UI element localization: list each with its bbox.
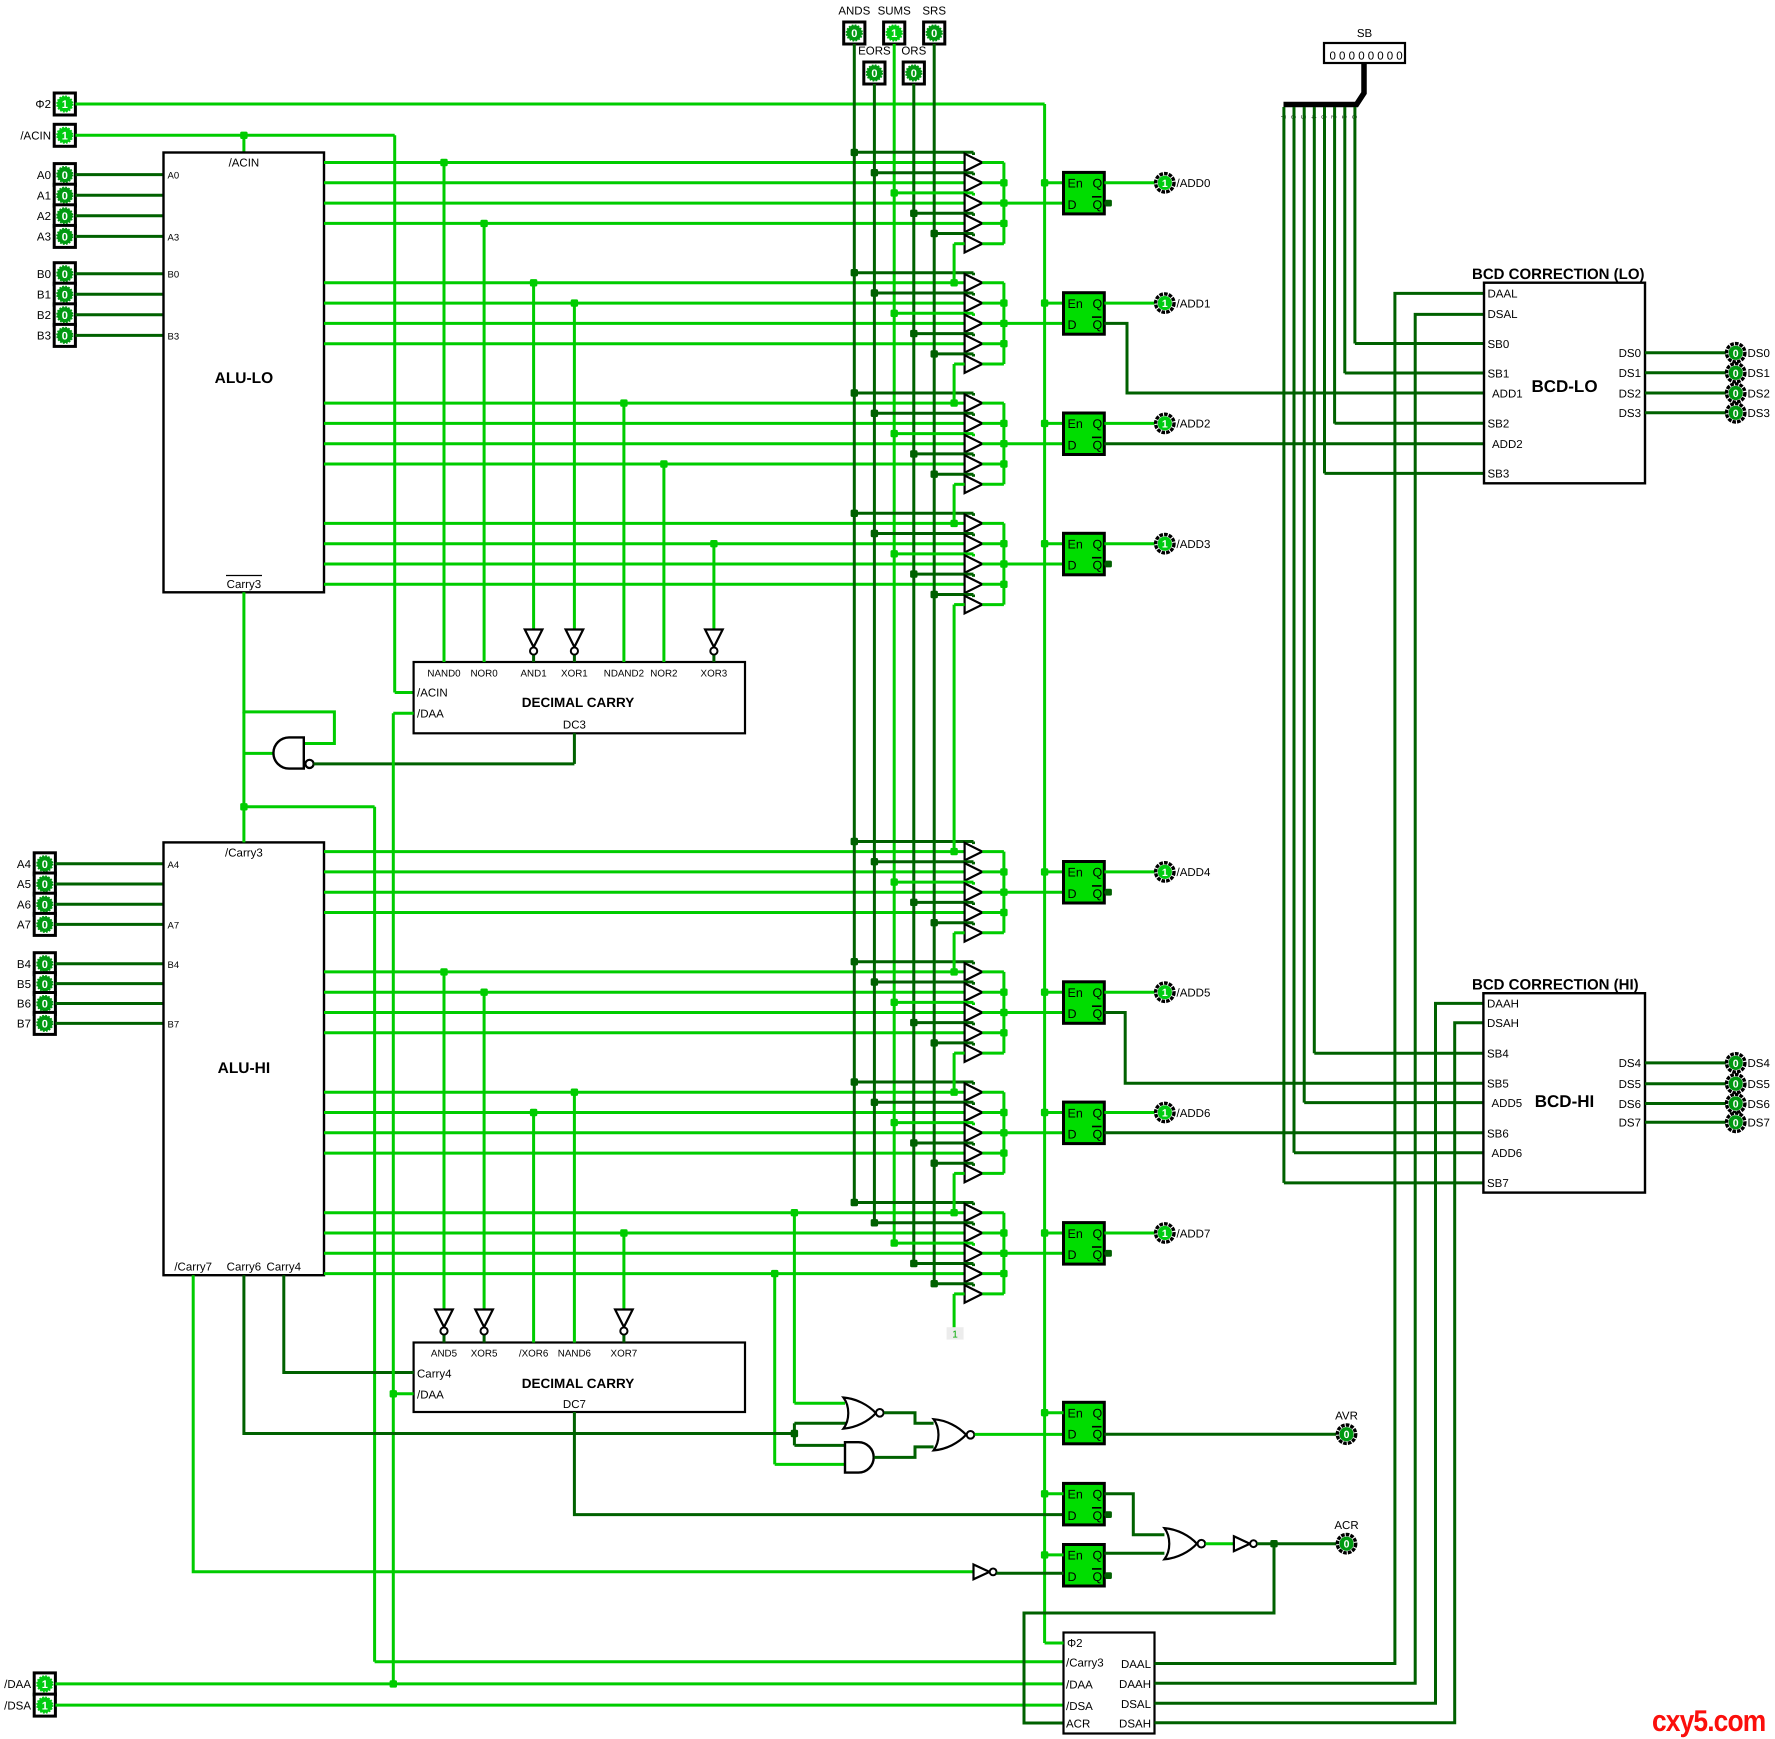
node A5 input pin [17, 873, 55, 895]
svg-text:Q: Q [1093, 1227, 1103, 1241]
wire ALU row g4r4 [324, 911, 965, 914]
wire /Carry7 net [193, 1275, 973, 1572]
wire D input bit2 [1004, 442, 1064, 445]
svg-text:En: En [1068, 538, 1083, 552]
wire NAND0 feed [440, 159, 447, 662]
svg-text:/ADD7: /ADD7 [1177, 1228, 1211, 1240]
svg-text:DS6: DS6 [1619, 1099, 1641, 1111]
wire ANDS enable tap bit1 [851, 269, 974, 276]
wire ANDS enable tap bit3 [851, 510, 974, 517]
svg-text:DC7: DC7 [563, 1399, 586, 1411]
svg-text:D: D [1068, 438, 1077, 452]
svg-text:DS2: DS2 [1619, 388, 1641, 400]
wire Q output bit2 [1104, 422, 1154, 425]
svg-text:En: En [1068, 1106, 1083, 1120]
node DS1 output pin [1727, 364, 1770, 382]
wire SUMS select vertical [893, 44, 896, 1243]
svg-text:Q: Q [1093, 1106, 1103, 1120]
wire B6 stub [55, 1002, 163, 1005]
wire SB1 bus line [1345, 107, 1484, 373]
wire /ACIN net [75, 132, 413, 693]
wire A1 stub [75, 194, 163, 197]
wire D input bit3 [1004, 563, 1064, 566]
wire D input bit4 [1004, 891, 1064, 894]
wire A6 stub [55, 903, 163, 906]
wire EORS enable tap bit3 [871, 530, 974, 537]
svg-text:0: 0 [1368, 51, 1374, 63]
svg-text:0: 0 [62, 269, 68, 281]
node DS3 output pin [1727, 404, 1770, 422]
wire U3 out [874, 1447, 933, 1458]
svg-text:B7: B7 [168, 1020, 180, 1031]
svg-text:DS4: DS4 [1748, 1058, 1771, 1070]
svg-text:0: 0 [42, 959, 48, 971]
inverter U7 (ACR) [1234, 1536, 1257, 1551]
capacitor latch /ADD3 [1064, 533, 1105, 575]
wire Carry4 to DC7 [284, 1275, 414, 1372]
wire SUMS enable tap bit2 [891, 430, 974, 437]
wire ACR-hold Qbar stub [1104, 1511, 1112, 1518]
wire U4 out to AVR latch D [975, 1433, 1064, 1436]
wire SRS link bit7 [954, 1294, 965, 1327]
wire B4 stub [55, 962, 163, 965]
inverter XOR3 [705, 630, 723, 663]
wire DC7 output [574, 1412, 1063, 1515]
wire Q output bit0 [1104, 181, 1154, 184]
transistor tri-state buffer ANDS6 [965, 1083, 983, 1101]
svg-text:ALU-LO: ALU-LO [215, 370, 274, 387]
wire AVR tap row4 [771, 1270, 846, 1465]
svg-text:0: 0 [1396, 51, 1402, 63]
wire Q output bit6 [1104, 1111, 1154, 1114]
wire U6 out [1205, 1542, 1233, 1545]
svg-text:/Carry3: /Carry3 [1066, 1658, 1104, 1670]
wire SRS enable tap bit5 [931, 1039, 974, 1046]
wire SRS link bit6 [950, 1173, 964, 1216]
svg-text:DS2: DS2 [1748, 388, 1770, 400]
svg-text:0: 0 [62, 289, 68, 301]
node A4 input pin [17, 853, 55, 875]
svg-text:0: 0 [42, 879, 48, 891]
svg-text:1: 1 [1162, 418, 1168, 430]
svg-text:A1: A1 [37, 190, 51, 202]
transistor tri-state buffer ORS7 [965, 1265, 983, 1283]
wire SUMS enable tap bit6 [891, 1119, 974, 1126]
wire SUMS enable tap bit7 [891, 1239, 974, 1246]
svg-text:Carry4: Carry4 [267, 1262, 302, 1274]
wire SB7 bus line [1284, 107, 1484, 1183]
svg-text:B3: B3 [168, 331, 180, 342]
svg-text:Q: Q [1093, 538, 1103, 552]
svg-text:DAAH: DAAH [1119, 1679, 1151, 1691]
svg-text:0: 0 [62, 331, 68, 343]
wire ALU row g6r2 [324, 1111, 965, 1114]
wire ACR-carry En [1045, 1553, 1064, 1556]
svg-text:Q: Q [1093, 438, 1103, 452]
wire ORS select vertical [912, 84, 915, 1264]
wire EORS enable tap bit2 [871, 410, 974, 417]
svg-text:Q: Q [1093, 1570, 1103, 1584]
svg-text:/ADD4: /ADD4 [1177, 867, 1211, 879]
wire B5 stub [55, 982, 163, 985]
transistor tri-state buffer SRS5 [965, 1044, 983, 1062]
transistor tri-state buffer SUMS6 [965, 1124, 983, 1142]
capacitor latch /ADD5 [1064, 982, 1105, 1024]
wire SB bus trunk [1284, 63, 1365, 105]
svg-text:SB3: SB3 [1488, 469, 1510, 481]
svg-text:SB5: SB5 [1487, 1079, 1509, 1091]
wire AVR tap SUM7 [791, 1209, 845, 1403]
wire DS5 out [1645, 1082, 1726, 1085]
wire DC3 output [314, 733, 575, 764]
svg-text:0: 0 [1733, 1058, 1739, 1070]
svg-text:Q: Q [1093, 887, 1103, 901]
svg-text:Q: Q [1093, 866, 1103, 880]
wire SRS enable tap bit4 [931, 919, 974, 926]
wire PHI2 to control box [1045, 1642, 1064, 1645]
svg-text:XOR3: XOR3 [701, 669, 728, 680]
svg-text:DS1: DS1 [1748, 368, 1770, 380]
svg-text:1: 1 [1162, 298, 1168, 310]
wire ORS enable tap bit4 [910, 899, 973, 906]
op-amp DECIMAL CARRY DC3 block [414, 662, 745, 733]
svg-text:/Carry7: /Carry7 [174, 1262, 212, 1274]
svg-text:0: 0 [42, 859, 48, 871]
wire /ADD1 Qbar to BCD [1104, 323, 1484, 393]
transistor tri-state buffer ORS5 [965, 1024, 983, 1042]
inverter XOR5 [475, 1310, 493, 1343]
svg-text:DECIMAL CARRY: DECIMAL CARRY [522, 695, 635, 710]
wire buffer output bus bit6 [982, 1092, 1007, 1173]
svg-text:1: 1 [1162, 539, 1168, 551]
wire XOR7 feed [620, 1229, 627, 1309]
wire DSAL net [1155, 314, 1485, 1683]
wire En input bit0 [1045, 181, 1064, 184]
transistor tri-state buffer ANDS3 [965, 515, 983, 533]
display SB register [1324, 28, 1405, 63]
svg-text:B4: B4 [168, 960, 180, 971]
inverter U5 (/Carry7) [974, 1565, 997, 1580]
wire ALU row g7r2 [324, 1232, 965, 1235]
svg-text:BCD CORRECTION (HI): BCD CORRECTION (HI) [1472, 977, 1639, 994]
node /ADD7 output pin [1156, 1224, 1211, 1242]
svg-text:D: D [1068, 1007, 1077, 1021]
svg-text:1: 1 [42, 1700, 48, 1712]
svg-text:SRS: SRS [922, 6, 946, 18]
wire ANDS enable tap bit4 [851, 838, 974, 845]
node PHI2 input pin [35, 93, 75, 115]
capacitor latch AVR [1064, 1402, 1105, 1444]
svg-text:1: 1 [42, 1679, 48, 1691]
transistor tri-state buffer ANDS4 [965, 843, 983, 861]
wire buffer output bus bit1 [982, 283, 1007, 364]
wire NDAND2 feed [620, 399, 627, 662]
node /ADD3 output pin [1156, 535, 1211, 553]
wire ALU row g1r4 [324, 342, 965, 345]
transistor tri-state buffer EORS5 [965, 983, 983, 1001]
wire buffer output bus bit2 [982, 403, 1007, 484]
svg-text:Q: Q [1093, 1407, 1103, 1421]
node B5 input pin [17, 973, 55, 995]
svg-text:0: 0 [1733, 1099, 1739, 1111]
svg-text:0: 0 [1344, 1539, 1350, 1551]
wire Q output bit5 [1104, 991, 1154, 994]
wire ORS enable tap bit7 [910, 1260, 973, 1267]
svg-text:1: 1 [1162, 987, 1168, 999]
transistor tri-state buffer SUMS0 [965, 194, 983, 212]
transistor tri-state buffer SRS6 [965, 1165, 983, 1183]
wire SRS link bit5 [950, 1053, 964, 1096]
wire DS0 out [1645, 351, 1726, 354]
svg-text:En: En [1068, 986, 1083, 1000]
op-amp DECIMAL CARRY DC7 block [414, 1343, 745, 1413]
node ACR output pin [1334, 1520, 1358, 1553]
node A7 input pin [17, 913, 55, 935]
transistor tri-state buffer SUMS1 [965, 315, 983, 333]
wire SRS link bit2 [950, 484, 964, 527]
node /ADD6 output pin [1156, 1103, 1211, 1121]
wire ANDS enable tap bit7 [851, 1199, 974, 1206]
svg-text:DSAL: DSAL [1121, 1699, 1152, 1711]
wire SUMS enable tap bit4 [891, 878, 974, 885]
node constant 1 [947, 1327, 964, 1340]
svg-text:Q: Q [1093, 1488, 1103, 1502]
svg-text:ANDS: ANDS [838, 6, 870, 18]
svg-text:1: 1 [891, 28, 897, 40]
wire ACR net [1024, 1540, 1336, 1723]
wire D input bit1 [1004, 322, 1064, 325]
svg-text:Q: Q [1093, 177, 1103, 191]
nor-gate U2 (overflow) [843, 1398, 883, 1429]
wire buffer output bus bit3 [982, 523, 1007, 604]
wire A4 stub [55, 862, 163, 865]
wire ALU row g6r4 [324, 1152, 965, 1155]
wire D input bit7 [1004, 1252, 1064, 1255]
svg-text:ORS: ORS [901, 46, 926, 58]
capacitor latch /ADD7 [1064, 1223, 1105, 1265]
node AVR output pin [1335, 1411, 1358, 1444]
svg-text:En: En [1068, 1549, 1083, 1563]
wire /ADD7 Qbar stub [1104, 1250, 1112, 1257]
wire /DSA net [55, 1704, 1063, 1707]
node /ADD1 output pin [1156, 294, 1211, 312]
node A6 input pin [17, 893, 55, 915]
svg-text:DS7: DS7 [1619, 1118, 1641, 1130]
node B6 input pin [17, 993, 55, 1015]
svg-text:A0: A0 [168, 171, 180, 182]
capacitor latch /ADD6 [1064, 1102, 1105, 1144]
svg-text:EORS: EORS [858, 46, 891, 58]
wire SRS enable tap bit7 [931, 1280, 974, 1287]
svg-text:/XOR6: /XOR6 [519, 1349, 549, 1360]
wire DS6 out [1645, 1102, 1726, 1105]
wire ALU row g5r4 [324, 1031, 965, 1034]
capacitor latch /ADD4 [1064, 862, 1105, 904]
svg-text:ADD2: ADD2 [1492, 439, 1523, 451]
inverter XOR1 [566, 630, 584, 663]
nand-gate U1 (Carry3 invert) [273, 737, 313, 768]
svg-text:Q: Q [1093, 1128, 1103, 1142]
wire D input bit5 [1004, 1011, 1064, 1014]
wire ALU row g4r1 [324, 850, 965, 853]
wire SRS link bit1 [950, 364, 964, 407]
wire DAAH net [1155, 1003, 1484, 1703]
wire D input bit0 [1004, 202, 1064, 205]
wire ANDS select vertical [853, 44, 856, 1203]
svg-text:/ADD1: /ADD1 [1177, 298, 1211, 310]
svg-text:0: 0 [1733, 1079, 1739, 1091]
node A2 input pin [37, 205, 75, 227]
svg-text:ADD6: ADD6 [1492, 1148, 1523, 1160]
svg-text:0: 0 [851, 28, 857, 40]
wire ANDS enable tap bit0 [851, 149, 974, 156]
svg-text:SB0: SB0 [1488, 339, 1510, 351]
svg-text:/DSA: /DSA [1066, 1701, 1093, 1713]
wire Q output bit3 [1104, 542, 1154, 545]
wire ALU row g4r3 [324, 891, 965, 894]
svg-text:SB6: SB6 [1487, 1128, 1509, 1140]
svg-text:B1: B1 [37, 289, 51, 301]
transistor tri-state buffer ANDS2 [965, 394, 983, 412]
wire SUMS enable tap bit0 [891, 189, 974, 196]
svg-text:0: 0 [1377, 51, 1383, 63]
svg-text:B0: B0 [37, 269, 51, 281]
capacitor latch /ADD1 [1064, 293, 1105, 335]
svg-text:Q: Q [1093, 198, 1103, 212]
svg-text:DS3: DS3 [1748, 408, 1770, 420]
nor-gate U6 (ACR) [1164, 1528, 1205, 1559]
svg-text:1: 1 [62, 99, 68, 111]
wire ORS enable tap bit2 [910, 450, 973, 457]
wire PHI2 net [75, 104, 1048, 1643]
wire En input bit1 [1045, 302, 1064, 305]
svg-text:DS5: DS5 [1619, 1079, 1641, 1091]
svg-text:DS0: DS0 [1748, 348, 1770, 360]
wire ALU row g3r3 [324, 563, 965, 566]
wire ALU row g5r2 [324, 991, 965, 994]
svg-text:Φ2: Φ2 [35, 99, 51, 111]
svg-text:0: 0 [1733, 408, 1739, 420]
svg-text:/Carry3: /Carry3 [225, 848, 263, 860]
svg-text:/ADD5: /ADD5 [1177, 988, 1211, 1000]
wire DS1 out [1645, 371, 1726, 374]
wire SB5 bus line [1304, 107, 1484, 1103]
svg-text:SB7: SB7 [1487, 1178, 1509, 1190]
svg-text:/ACIN: /ACIN [20, 131, 51, 143]
svg-text:0: 0 [42, 920, 48, 932]
transistor tri-state buffer EORS1 [965, 294, 983, 312]
wire SRS link bit3 [950, 605, 964, 856]
wire ALU row g0r2 [324, 181, 965, 184]
wire En input bit7 [1045, 1232, 1064, 1235]
svg-text:DSAL: DSAL [1488, 309, 1519, 321]
svg-text:D: D [1068, 1248, 1077, 1262]
node /DAA input pin [4, 1673, 55, 1695]
svg-text:A7: A7 [17, 920, 31, 932]
svg-text:0: 0 [1339, 51, 1345, 63]
wire A3 stub [75, 235, 163, 238]
wire SB6 bus line [1294, 107, 1484, 1153]
wire Q output bit1 [1104, 302, 1154, 305]
svg-text:Q: Q [1093, 559, 1103, 573]
transistor tri-state buffer EORS2 [965, 415, 983, 433]
wire ALU row g0r4 [324, 222, 965, 225]
svg-text:D: D [1068, 1428, 1077, 1442]
svg-text:/DAA: /DAA [417, 709, 444, 721]
svg-text:DS6: DS6 [1748, 1099, 1770, 1111]
svg-text:SB: SB [1357, 28, 1373, 40]
svg-text:ACR: ACR [1334, 1520, 1358, 1532]
inverter XOR7 [615, 1310, 633, 1343]
svg-text:0: 0 [931, 28, 937, 40]
wire EORS enable tap bit1 [871, 289, 974, 296]
node /ADD5 output pin [1156, 983, 1211, 1001]
svg-text:1: 1 [1162, 1228, 1168, 1240]
op-amp BCD-HI block [1472, 977, 1645, 1193]
svg-text:1: 1 [1162, 178, 1168, 190]
svg-text:0: 0 [62, 232, 68, 244]
node EORS input pin [858, 46, 891, 85]
svg-text:B4: B4 [17, 959, 32, 971]
wire ORS enable tap bit6 [910, 1139, 973, 1146]
wire Q output bit4 [1104, 870, 1154, 873]
svg-text:Carry4: Carry4 [417, 1369, 452, 1381]
wire AND1 feed [530, 279, 537, 629]
transistor tri-state buffer ORS4 [965, 904, 983, 922]
node watermark cxy5.com [1652, 1705, 1765, 1738]
wire /XOR6 feed [530, 1109, 537, 1343]
svg-text:/ADD0: /ADD0 [1177, 178, 1211, 190]
wire Carry6 net [244, 1275, 846, 1445]
wire /ADD2 Qbar to BCD [1104, 442, 1484, 445]
svg-text:B6: B6 [17, 999, 31, 1011]
svg-text:Q: Q [1093, 1509, 1103, 1523]
svg-text:1: 1 [1162, 867, 1168, 879]
svg-text:En: En [1068, 1488, 1083, 1502]
transistor tri-state buffer ORS2 [965, 455, 983, 473]
svg-text:D: D [1068, 1570, 1077, 1584]
svg-text:ADD1: ADD1 [1492, 388, 1523, 400]
wire U5 out to D [997, 1572, 1064, 1575]
wire EORS enable tap bit6 [871, 1099, 974, 1106]
wire ORS enable tap bit0 [910, 210, 973, 217]
node DS4 output pin [1727, 1054, 1771, 1072]
transistor tri-state buffer EORS7 [965, 1224, 983, 1242]
wire ALU row g2r4 [324, 463, 965, 466]
wire /ADD4 Qbar stub [1104, 889, 1112, 896]
node DS5 output pin [1727, 1075, 1770, 1093]
transistor tri-state buffer ANDS7 [965, 1204, 983, 1222]
node A0 input pin [37, 164, 75, 186]
wire /DAA net [55, 713, 1063, 1687]
wire SB4 bus line [1314, 107, 1484, 1053]
wire A0 stub [75, 173, 163, 176]
svg-text:A3: A3 [168, 233, 180, 244]
node B4 input pin [17, 953, 55, 975]
wire SRS enable tap bit0 [931, 230, 974, 237]
transistor tri-state buffer ANDS1 [965, 274, 983, 292]
transistor tri-state buffer SRS4 [965, 924, 983, 942]
svg-text:0: 0 [1349, 51, 1355, 63]
wire ANDS enable tap bit6 [851, 1078, 974, 1085]
svg-text:/DSA: /DSA [4, 1700, 31, 1712]
svg-text:NDAND2: NDAND2 [604, 669, 644, 680]
wire D input bit6 [1004, 1131, 1064, 1134]
wire ALU row g0r1 [324, 161, 965, 164]
wire U2 out [884, 1413, 934, 1424]
svg-text:Q: Q [1093, 1007, 1103, 1021]
svg-text:En: En [1068, 297, 1083, 311]
